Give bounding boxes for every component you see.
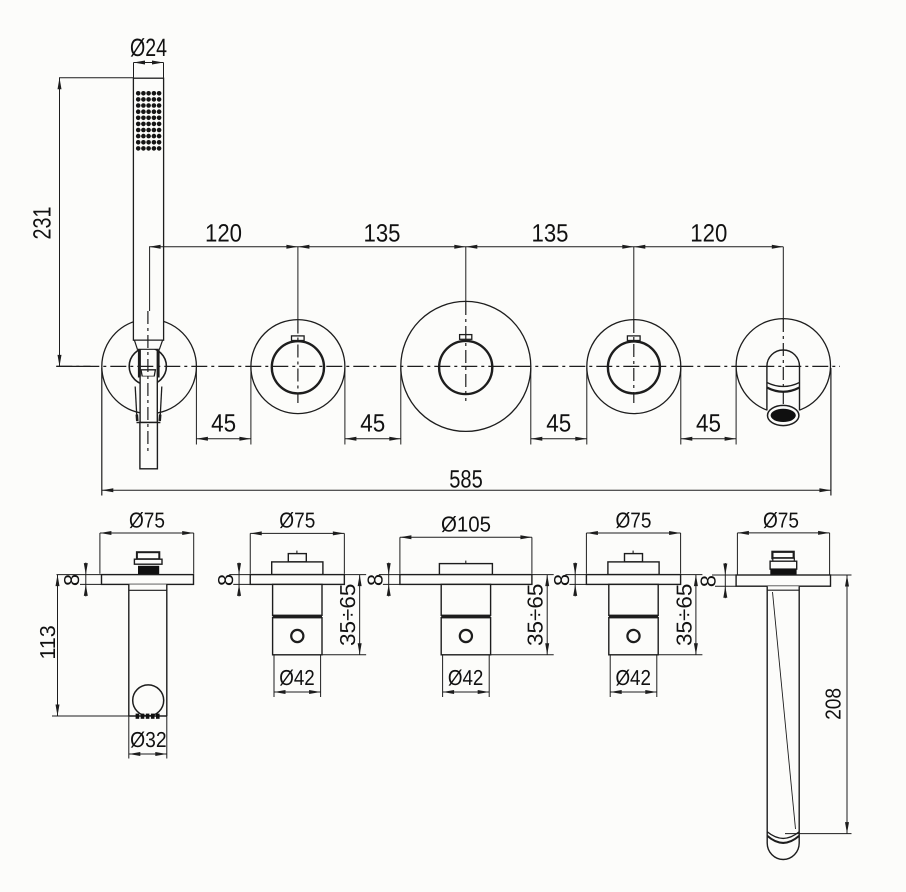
unit3 dimension 35÷65 extensions	[532, 574, 554, 576]
dimension 8 line	[724, 563, 726, 598]
rosette circle 5 (spout)	[736, 319, 830, 413]
unit2 cartridge screw	[291, 630, 303, 642]
rosette circle 1 (handshower holder)	[102, 319, 197, 414]
dimension 8 line	[85, 563, 87, 597]
svg-text:45: 45	[546, 410, 571, 438]
spout band lower	[767, 388, 800, 392]
svg-text:120: 120	[690, 220, 727, 248]
extension line center circle 3	[465, 247, 467, 302]
unit3 cap	[439, 564, 492, 575]
unit2 dimension &#216; line	[250, 532, 344, 534]
unit5 knob base	[770, 569, 796, 575]
dimension row line 120-135-135-120	[149, 246, 783, 248]
unit3 cartridge box	[441, 618, 490, 655]
handshower body	[133, 78, 163, 340]
dimension 45 #2 line	[345, 438, 401, 440]
extension line center circle 2	[297, 247, 299, 321]
notch circle 3	[460, 335, 472, 340]
rosette circle 2 (left handle valve)	[251, 320, 345, 414]
svg-text:45: 45	[360, 410, 385, 438]
unit5 knob band	[773, 558, 795, 561]
unit3 plate edge extensions left	[379, 574, 400, 576]
unit1 dimension 113 line	[57, 575, 59, 716]
unit2 cap small	[288, 554, 306, 562]
unit4 cap large	[608, 562, 659, 575]
unit5 tube dome end	[767, 843, 799, 860]
unit3 dimension Ø42 extensions	[442, 655, 444, 697]
unit2 dimension Ø42 extensions	[273, 655, 275, 697]
svg-text:8: 8	[213, 574, 238, 586]
unit4 cap small	[625, 554, 643, 562]
unit1 plate edge extensions left	[57, 574, 102, 576]
dimension 45 #1 extension lines	[195, 368, 197, 445]
unit4 dimension 35÷65 extensions	[681, 574, 703, 576]
inner circle 4	[608, 341, 660, 393]
dimension 231 line	[59, 78, 61, 367]
holder cone left	[135, 387, 137, 415]
unit2 dimension 35÷65 extensions	[344, 574, 366, 576]
svg-text:45: 45	[211, 410, 236, 438]
unit2 plate edge extensions left	[229, 574, 250, 576]
unit4 body thick line	[609, 615, 658, 618]
dimension 45 #1 line	[196, 438, 251, 440]
holder nut	[141, 370, 155, 377]
dimension 231 top extension	[59, 77, 133, 79]
unit3 wall plate	[400, 575, 532, 585]
unit2 dimension Ø42 line	[274, 691, 321, 693]
spout outlet opening	[771, 409, 796, 422]
unit3 body	[441, 584, 490, 615]
svg-text:208: 208	[820, 688, 845, 720]
holder clip right	[157, 350, 160, 378]
unit2 cartridge box	[273, 618, 322, 655]
vertical centerline circle 4	[633, 320, 635, 403]
dimension 8 line	[574, 563, 576, 597]
unit2 wall plate	[250, 575, 344, 585]
unit5 tube diagonal	[773, 592, 796, 829]
unit4 dimension 35÷65 line	[695, 575, 697, 655]
unit3 dimension 35÷65 line	[546, 575, 548, 655]
svg-text:Ø42: Ø42	[279, 665, 315, 690]
dimension 45 #3 line	[531, 438, 587, 440]
svg-text:35÷65: 35÷65	[523, 584, 548, 647]
unit1 dimension Ø75 extensions	[99, 533, 101, 574]
dimension 585 line	[102, 489, 831, 491]
dimension 45 #2 extension lines	[344, 368, 346, 445]
svg-text:113: 113	[35, 625, 60, 660]
unit5 spout tube	[767, 586, 799, 843]
extension line center circle 4	[633, 247, 635, 320]
spout outlet rim	[768, 405, 799, 425]
unit4 cartridge screw	[627, 630, 639, 642]
dimension Ø24 extension lines	[133, 63, 135, 78]
unit3 dimension &#216; extensions	[399, 537, 401, 574]
svg-text:35÷65: 35÷65	[671, 584, 696, 647]
unit5 tube band lower	[767, 836, 799, 843]
svg-text:Ø32: Ø32	[130, 727, 167, 752]
svg-text:231: 231	[28, 207, 56, 240]
unit1 tube collar line	[129, 589, 167, 591]
unit4 cap center tick	[632, 551, 634, 555]
unit4 dimension &#216; line	[586, 532, 680, 534]
holder cone right	[160, 387, 162, 415]
unit2 body	[273, 584, 322, 615]
dimension Ø24 line	[134, 62, 164, 64]
unit5 dimension 208 extensions	[831, 574, 852, 576]
vertical centerline circle 1	[147, 311, 149, 452]
notch circle 4	[627, 336, 640, 341]
holder cone corner ticks	[136, 415, 139, 422]
svg-text:45: 45	[696, 410, 721, 438]
unit4 dimension &#216; extensions	[585, 533, 587, 574]
unit4 plate edge extensions left	[565, 574, 586, 576]
unit5 wall plate	[736, 575, 830, 586]
vertical centerline circle 2	[297, 321, 299, 404]
unit5 knob top	[772, 552, 793, 558]
svg-text:Ø75: Ø75	[616, 507, 652, 532]
svg-text:120: 120	[205, 220, 242, 248]
svg-text:585: 585	[449, 466, 483, 494]
svg-text:Ø75: Ø75	[279, 507, 315, 532]
unit3 cap center tick	[465, 561, 467, 565]
unit2 cap large	[272, 562, 323, 575]
dimension 45 #4 line	[681, 438, 736, 440]
unit2 dimension 35÷65 line	[359, 575, 361, 655]
svg-text:Ø75: Ø75	[763, 507, 799, 532]
inner circle 3	[439, 341, 492, 394]
handshower spray dots	[136, 91, 162, 151]
dimension 45 #3 extension lines	[530, 368, 532, 445]
unit1 holder teeth	[136, 714, 160, 719]
svg-text:8: 8	[549, 574, 574, 586]
unit3 dimension Ø42 line	[443, 691, 490, 693]
spout band upper	[767, 383, 800, 387]
unit1 holder tube	[129, 584, 167, 716]
unit1 holder ball side view	[133, 685, 164, 716]
notch circle 2	[292, 336, 305, 341]
unit5 plate edge extensions left	[712, 574, 736, 576]
unit5 dimension 208 line	[846, 575, 848, 834]
inner circle 2	[272, 341, 324, 393]
svg-text:8: 8	[362, 574, 387, 586]
dimension 8 line	[388, 563, 390, 597]
dimension 45 #4 extension lines	[680, 368, 682, 445]
unit2 cap center tick	[296, 551, 298, 555]
holder ball	[129, 348, 166, 385]
unit5 tube collar line	[767, 589, 799, 591]
svg-text:135: 135	[364, 220, 401, 248]
svg-text:35÷65: 35÷65	[335, 584, 360, 647]
unit4 body	[609, 584, 658, 615]
unit5 knob lower	[770, 561, 797, 569]
svg-text:8: 8	[59, 574, 84, 586]
handle shaft	[140, 377, 157, 423]
unit5 dimension Ø75 line	[737, 532, 829, 534]
unit4 dimension Ø42 line	[610, 691, 657, 693]
extension line center circle 5	[782, 247, 784, 320]
svg-text:135: 135	[532, 220, 569, 248]
unit1 dimension Ø75 line	[100, 532, 194, 534]
spout tube front	[767, 350, 800, 417]
unit5 tube band upper	[767, 832, 799, 839]
unit4 cartridge box	[609, 618, 658, 655]
horizontal centerline start segment	[56, 365, 90, 367]
vertical centerline circle 3	[465, 302, 467, 401]
unit1 holder knob flange	[134, 559, 162, 564]
extension line center circle 1	[149, 247, 151, 311]
unit4 wall plate	[586, 575, 680, 585]
unit4 dimension Ø42 extensions	[609, 655, 611, 697]
svg-text:Ø24: Ø24	[130, 34, 167, 62]
svg-text:8: 8	[696, 575, 721, 587]
unit2 dimension &#216; extensions	[249, 533, 251, 573]
unit3 dimension &#216; line	[400, 536, 532, 538]
svg-text:Ø42: Ø42	[615, 665, 651, 690]
unit1 dimension 113 bottom extension	[52, 715, 132, 717]
rosette circle 4 (right handle valve)	[587, 320, 681, 414]
holder clip left	[138, 350, 141, 378]
unit5 dimension Ø75 extensions	[736, 533, 738, 575]
dimension 585 extension lines	[101, 368, 103, 496]
unit1 holder knob top	[137, 552, 159, 559]
horizontal centerline	[56, 365, 840, 367]
unit1 dimension Ø32 line	[129, 753, 167, 755]
handshower handle tip	[140, 423, 158, 469]
svg-text:Ø75: Ø75	[129, 507, 165, 532]
svg-text:Ø105: Ø105	[441, 512, 491, 537]
unit3 cartridge screw	[460, 630, 472, 642]
unit1 dimension Ø32 extensions	[128, 716, 130, 759]
unit1 holder knob base	[138, 566, 159, 575]
unit2 body thick line	[273, 615, 322, 618]
unit1 wall plate	[102, 575, 194, 585]
vertical centerline circle 5	[782, 319, 784, 406]
holder cone bottom edge	[137, 422, 161, 424]
handshower neck	[134, 340, 162, 349]
unit3 body thick line	[441, 615, 490, 618]
svg-text:Ø42: Ø42	[448, 665, 484, 690]
rosette circle 3 (central thermostat)	[401, 301, 531, 431]
dimension 8 line	[238, 563, 240, 597]
